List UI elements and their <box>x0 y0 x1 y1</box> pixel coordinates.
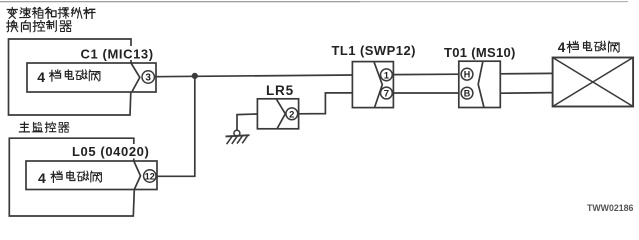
LR5 chevron <box>276 99 285 129</box>
scan top border <box>0 1 360 2</box>
wire: LR5 to ground <box>237 114 257 130</box>
connector LR5 box <box>257 99 298 129</box>
pin 7 of TL1 <box>381 87 393 99</box>
label L05 (04020) <box>71 144 151 159</box>
svg-text:7: 7 <box>384 89 389 100</box>
wire: T01 H to solenoid <box>500 72 552 74</box>
pin 12 of L05 <box>144 170 156 182</box>
svg-text:T01 (MS10): T01 (MS10) <box>444 45 516 60</box>
svg-text:12: 12 <box>145 172 155 182</box>
component box: 4th gear solenoid (lower) <box>26 161 157 190</box>
connector chevron C1 <box>131 63 140 92</box>
svg-text:4: 4 <box>38 170 46 186</box>
connector TL1 box <box>352 62 393 108</box>
solenoid coil box with X <box>553 58 634 107</box>
svg-text:C1 (MIC13): C1 (MIC13) <box>81 46 154 61</box>
component box: 4th gear solenoid (upper) <box>27 63 156 92</box>
caption: gearbox & joystick reversing controller (line 1) <box>7 7 95 18</box>
wire: junction down to pin12 <box>156 76 195 176</box>
label C1 (MIC13) <box>79 46 154 60</box>
svg-text:TWW02186: TWW02186 <box>587 203 634 213</box>
svg-text:4: 4 <box>558 40 566 55</box>
ground terminal circle <box>234 130 240 136</box>
pin B of T01 <box>461 87 473 99</box>
svg-text:2: 2 <box>289 109 294 120</box>
pin 2 of LR5 <box>286 108 298 120</box>
caption line 2 <box>7 21 72 32</box>
wire: pin3 to TL1 pin1 <box>154 75 352 77</box>
connector T01 box <box>459 61 501 107</box>
svg-text:4: 4 <box>37 69 45 85</box>
svg-text:1: 1 <box>384 70 390 81</box>
pin 3 of C1 <box>142 71 154 83</box>
pin H of T01 <box>461 68 473 80</box>
controller box C1 outline <box>9 39 132 115</box>
wire: TL1 pin1 to T01 pin H <box>393 73 458 75</box>
svg-text:H: H <box>464 70 471 80</box>
svg-text:LR5: LR5 <box>266 83 294 98</box>
pin 1 of TL1 <box>381 69 393 81</box>
svg-text:TL1 (SWP12): TL1 (SWP12) <box>332 43 416 58</box>
connector chevron L05 <box>134 161 141 190</box>
caption: main monitor <box>19 122 69 132</box>
svg-text:B: B <box>464 89 471 99</box>
monitor box L05 outline <box>9 138 134 216</box>
wire: T01 B to solenoid <box>500 92 552 95</box>
TL1 chevron <box>374 62 382 108</box>
wire: LR5 pin2 to TL1 pin7 <box>298 93 353 114</box>
junction node <box>192 73 198 79</box>
svg-text:3: 3 <box>145 73 151 84</box>
wire: TL1 pin7 to T01 pin B <box>393 92 458 94</box>
ground symbol <box>226 135 250 136</box>
T01 chevron <box>478 61 484 107</box>
svg-text:L05 (04020): L05 (04020) <box>72 144 149 159</box>
